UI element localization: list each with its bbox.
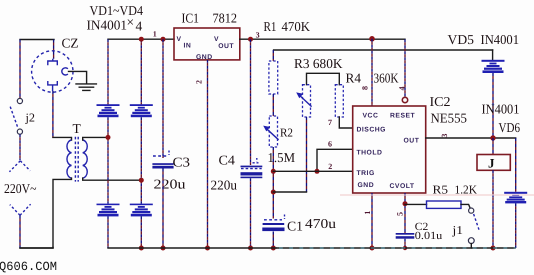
svg-text:Q606.COM: Q606.COM: [0, 260, 57, 274]
wire: CVOLT vertical: [404, 193, 406, 233]
svg-text:1.5M: 1.5M: [268, 150, 296, 165]
svg-text:J: J: [488, 156, 495, 171]
svg-text:V: V: [177, 36, 182, 43]
svg-text:THOLD: THOLD: [357, 150, 383, 157]
wire: VD6 branch lower: [515, 203, 517, 248]
node: C1 bottom: [271, 246, 276, 251]
wire: bridge left vertical mid: [107, 117, 109, 203]
svg-text:OUT: OUT: [218, 43, 234, 50]
socket CZ circle: [32, 51, 73, 92]
svg-text:V: V: [214, 36, 219, 43]
svg-text:1.2K: 1.2K: [455, 183, 478, 197]
wire: TRIG link: [273, 170, 352, 172]
svg-text:470u: 470u: [305, 216, 336, 231]
diode VD1: [97, 104, 120, 117]
wire: THOLD link: [317, 149, 353, 171]
wire: source to bottom left corner: [19, 216, 21, 249]
CZ bottom pin: [48, 81, 58, 91]
svg-text:VD1~VD4: VD1~VD4: [90, 3, 144, 18]
wire: faint scan artifact row: [340, 194, 534, 196]
svg-text:GND: GND: [196, 54, 213, 61]
svg-text:7: 7: [328, 118, 332, 127]
svg-text:VD5: VD5: [448, 32, 475, 47]
wire: bridge left vertical upper: [107, 39, 109, 104]
svg-text:CVOLT: CVOLT: [390, 183, 415, 190]
wire: j1 to rail: [470, 244, 472, 248]
diode VD5: [482, 60, 505, 73]
svg-text:R2: R2: [280, 126, 293, 140]
wire: +12V corner to VD5: [492, 50, 494, 60]
svg-text:360K: 360K: [374, 71, 399, 86]
svg-text:C3: C3: [173, 155, 191, 170]
transformer T secondary winding: [83, 140, 88, 178]
svg-text:R5: R5: [433, 183, 449, 197]
node: OUT junction: [490, 135, 495, 140]
svg-text:470K: 470K: [282, 19, 311, 34]
op IC1 7812 box: [174, 28, 240, 60]
svg-text:IC2: IC2: [430, 94, 451, 109]
svg-text:C1: C1: [287, 219, 303, 234]
node: IC1 GND bottom: [205, 246, 210, 251]
svg-text:C4: C4: [219, 153, 236, 168]
wire: top rail bridge to IC1: [108, 38, 174, 40]
capacitor C1: [264, 219, 282, 221]
svg-text:0.01u: 0.01u: [415, 230, 443, 242]
wire: OUT to right: [426, 137, 516, 139]
svg-text:T: T: [73, 121, 82, 136]
svg-text:R3 680K: R3 680K: [294, 56, 343, 71]
wire: IC1 GND vertical: [207, 60, 209, 248]
wire: C4 vertical upper: [250, 39, 252, 165]
wire: R4 bottom to DISCHG: [339, 117, 352, 128]
RESET pin circle: [402, 97, 407, 102]
svg-text:×: ×: [127, 15, 135, 30]
node: secondary bottom tap: [139, 178, 144, 183]
node: CVOLT junction: [403, 201, 408, 206]
svg-text:R4: R4: [346, 71, 362, 86]
svg-text:5: 5: [395, 212, 404, 216]
transformer T primary lead top: [53, 137, 72, 140]
node: C3 top: [161, 37, 166, 42]
node: C3 bottom: [161, 246, 166, 251]
capacitor C4: [253, 162, 259, 164]
CZ right pin: [62, 68, 68, 75]
switch j1 bottom contact: [468, 238, 474, 244]
svg-text:IN: IN: [184, 43, 192, 50]
wire: CZ top stem: [53, 40, 55, 59]
wire: CZ bottom stem down to transformer: [52, 91, 54, 137]
wire: C3 vertical upper: [162, 39, 164, 158]
svg-text:7812: 7812: [213, 11, 238, 26]
R2 wiper arrow: [267, 129, 279, 140]
svg-text:j2: j2: [24, 111, 35, 125]
svg-text:IN4001: IN4001: [87, 18, 128, 33]
wire: CZ right pin to ground: [69, 71, 87, 83]
svg-text:TRIG: TRIG: [357, 170, 375, 177]
wire: bridge left vertical lower: [107, 216, 109, 248]
wire: VD5 to OUT node: [492, 73, 494, 138]
node: C4 top: [248, 37, 253, 42]
diode VD2: [130, 104, 153, 117]
wire: left AC vertical above j2: [19, 40, 21, 99]
svg-text:R1: R1: [264, 19, 277, 34]
svg-text:220u: 220u: [154, 177, 186, 192]
node: bridge right bottom: [139, 246, 144, 251]
svg-text:DISCHG: DISCHG: [357, 127, 386, 134]
capacitor C2: [396, 233, 415, 235]
svg-text:3: 3: [440, 134, 449, 138]
node: TRIG junction: [271, 169, 276, 174]
wire: DC bottom rail solid part: [108, 247, 276, 249]
wire: VCC vertical: [371, 39, 373, 106]
resistor R3: [303, 85, 311, 117]
wire: R3/R4 top bracket: [307, 73, 340, 84]
wire: relay J to rail: [492, 170, 494, 248]
node: 555 GND bottom: [370, 246, 375, 251]
transformer core: [74, 137, 76, 182]
wire: bridge right vertical lower: [140, 216, 142, 248]
svg-text:4: 4: [398, 87, 407, 91]
wire: bridge right vertical mid: [140, 117, 142, 203]
svg-text:j1: j1: [451, 223, 463, 237]
svg-text:1: 1: [363, 211, 372, 215]
wire: R5 to j1: [461, 204, 470, 207]
wire: OUT node to relay J: [492, 138, 494, 155]
CZ top pin: [48, 59, 58, 65]
switch j1 blade: [474, 214, 480, 231]
diode VD4: [130, 204, 153, 217]
resistor R5: [427, 201, 462, 208]
diode VD3: [97, 204, 120, 217]
wire: 555 GND vertical: [371, 193, 373, 248]
svg-text:220V~: 220V~: [4, 181, 37, 196]
wire: AC bottom rail: [20, 247, 53, 249]
wire: mains top from source to CZ: [20, 39, 54, 41]
switch j2: [17, 98, 22, 103]
wire: C1 bottom: [272, 232, 274, 249]
relay J box: [477, 155, 510, 171]
node: C4 bottom: [248, 246, 253, 251]
node: bridge right top: [139, 37, 144, 42]
svg-text:IC1: IC1: [182, 11, 200, 26]
wire: R1 to R2: [272, 94, 274, 116]
wire: R1 top stub: [272, 50, 274, 61]
transformer T secondary lead top: [83, 137, 108, 140]
wire: C3 vertical lower: [162, 169, 164, 249]
wire: C4 vertical lower: [250, 178, 252, 248]
ground: [76, 84, 96, 91]
wire: IC1 output rail: [240, 38, 405, 40]
node: C2 bottom: [403, 246, 407, 250]
wire: R2 bottom chain: [272, 147, 274, 219]
resistor R4: [335, 85, 343, 117]
svg-text:RESET: RESET: [390, 113, 416, 120]
wire: AC bottom corner to transformer: [20, 246, 53, 249]
svg-text:IN4001: IN4001: [481, 32, 520, 47]
resistor R1: [269, 61, 278, 94]
AC source 220V arrows: [9, 161, 30, 172]
resistor R2: [269, 116, 277, 147]
node: THOLD/TRIG junction: [315, 169, 320, 174]
wire: C2 bottom: [404, 239, 406, 248]
svg-text:8: 8: [361, 86, 370, 90]
svg-text:IN4001: IN4001: [482, 102, 520, 117]
svg-text:VCC: VCC: [363, 113, 379, 120]
wire: bridge right vertical upper: [140, 39, 142, 104]
switch j1 top contact: [469, 208, 474, 213]
op-amp IC2 NE555 box: [353, 106, 426, 193]
svg-text:1: 1: [153, 29, 157, 38]
wire: R3 bottom to chain: [273, 191, 306, 193]
diode VD6: [504, 192, 527, 204]
wire: R3 bottom vertical: [306, 117, 308, 192]
wire: j2 to source: [19, 134, 21, 160]
svg-text:GND: GND: [358, 182, 375, 189]
svg-text:2: 2: [328, 162, 332, 171]
wire: VD6 branch upper: [515, 138, 517, 192]
svg-text:2: 2: [195, 80, 204, 84]
svg-text:VD6: VD6: [499, 120, 521, 135]
wire: to R5: [405, 203, 427, 205]
wire: RESET vertical: [404, 39, 406, 97]
transformer T primary winding: [67, 140, 72, 178]
svg-text:3: 3: [256, 30, 260, 39]
capacitor C3: [153, 155, 167, 157]
wire: +12V secondary rail: [274, 49, 493, 51]
svg-text:NE555: NE555: [431, 111, 468, 126]
svg-text:6: 6: [328, 139, 332, 148]
R3 wiper arrow: [300, 95, 312, 106]
svg-text:4: 4: [136, 19, 143, 34]
transformer T secondary lead bottom: [83, 178, 142, 180]
svg-text:OUT: OUT: [404, 138, 420, 145]
svg-text:220u: 220u: [211, 178, 238, 193]
node: relay bottom: [491, 246, 496, 251]
svg-text:CZ: CZ: [62, 36, 79, 51]
node: secondary top tap: [106, 135, 111, 140]
node: R3 bottom junction: [271, 190, 276, 195]
node: VCC rail junction: [369, 36, 375, 42]
wire: DC bottom rail dashed part: [276, 247, 516, 249]
transformer T primary lead bottom: [53, 178, 72, 247]
